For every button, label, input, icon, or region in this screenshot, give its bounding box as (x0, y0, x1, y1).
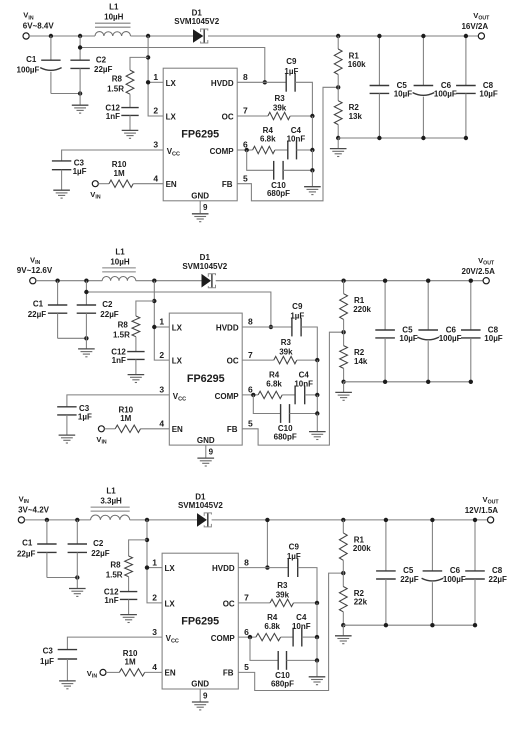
svg-text:C9: C9 (286, 57, 297, 66)
capacitor C8 (circuit 1) (465, 36, 467, 86)
node R2 bottom junction (circuit 2) (341, 380, 345, 384)
svg-text:R3: R3 (281, 338, 292, 347)
wire COMP pin 6 to R4 (circuit 3) (238, 636, 256, 638)
node VIN-C2 junction (circuit 2) (84, 279, 88, 283)
node C8 bottom junction (circuit 1) (464, 136, 468, 140)
resistor R2 (circuit 3) (342, 573, 344, 586)
wire L1 to D1 anode (circuit 3) (130, 519, 197, 521)
svg-text:HVDD: HVDD (211, 79, 234, 88)
wire COMP pin 6 to R4 (circuit 2) (242, 394, 258, 396)
capacitor C8 (circuit 3) (474, 520, 476, 571)
svg-text:D1: D1 (192, 9, 203, 18)
svg-text:C4: C4 (296, 613, 307, 622)
node C5 top junction (circuit 1) (377, 34, 381, 38)
wire C1 bottom to C2 (circuit 2) (58, 337, 87, 339)
svg-text:OC: OC (227, 357, 239, 366)
wire COMP to C10 (circuit 3) (250, 637, 278, 660)
svg-text:4: 4 (159, 419, 164, 429)
svg-text:10µF: 10µF (479, 89, 498, 98)
wire comp bus (circuit 3) (316, 603, 318, 637)
ground of comp bus (circuit 1) (304, 186, 321, 188)
wire R8 to C12 (circuit 1) (129, 94, 131, 107)
svg-text:9: 9 (203, 203, 208, 212)
capacitor C5 (circuit 1) (378, 36, 380, 86)
svg-text:FB: FB (222, 180, 233, 189)
svg-text:200k: 200k (353, 544, 371, 553)
capacitor C12 (circuit 2) (127, 351, 144, 353)
svg-text:1.5R: 1.5R (106, 570, 123, 579)
node C10 comp bus junction (circuit 2) (315, 411, 319, 415)
svg-text:1.5R: 1.5R (113, 330, 130, 339)
svg-text:LX: LX (166, 79, 177, 88)
svg-text:GND: GND (191, 192, 209, 201)
svg-text:1M: 1M (125, 658, 136, 667)
wire COMP pin 6 to R4 (circuit 1) (237, 149, 252, 151)
ground below IC pin 9 (circuit 1) (192, 213, 209, 215)
svg-text:FB: FB (227, 425, 238, 434)
svg-text:VCC: VCC (167, 147, 180, 158)
svg-text:8: 8 (248, 317, 253, 327)
resistor R4 (circuit 2) (258, 391, 282, 398)
ground below IC pin 9 (circuit 2) (197, 457, 214, 459)
wire C9 to comp bus (circuit 1) (295, 82, 312, 116)
svg-text:10µF: 10µF (394, 89, 413, 98)
node C8 top junction (circuit 2) (469, 279, 473, 283)
inductor L1 (circuit 3) (91, 515, 130, 520)
wire LX to pin 1 (circuit 2) (154, 326, 169, 328)
capacitor C1 (circuit 1) (50, 36, 52, 60)
node R8 tap on LX (circuit 2) (152, 299, 156, 303)
node C5 bottom junction (circuit 3) (384, 623, 388, 627)
capacitor C2 (circuit 3) (76, 520, 78, 544)
node VOUT-R1 junction (circuit 2) (341, 279, 345, 283)
wire HVDD pin 8 to C9 (circuit 3) (238, 567, 288, 569)
resistor R4 (circuit 3) (256, 633, 281, 640)
svg-text:C9: C9 (292, 302, 303, 311)
node VIN-C1 junction (circuit 3) (45, 518, 49, 522)
node C4 comp bus junction (circuit 2) (315, 393, 319, 397)
capacitor C10 (circuit 2) (280, 404, 282, 423)
wire OC pin 7 to R3 (circuit 1) (237, 115, 268, 117)
resistor R2 (circuit 2) (343, 332, 345, 345)
capacitor C6 (circuit 1) (422, 36, 424, 86)
node C8 top junction (circuit 1) (464, 34, 468, 38)
svg-text:SVM1045V2: SVM1045V2 (178, 501, 223, 510)
svg-text:7: 7 (248, 350, 253, 360)
diode D1 (circuit 2) (202, 274, 212, 288)
wire C1 bottom to C2 (circuit 3) (47, 577, 77, 579)
node C10 comp bus junction (circuit 1) (310, 168, 314, 172)
ground below R2 (circuit 2) (343, 382, 345, 393)
capacitor C1 (circuit 2) (57, 281, 59, 305)
ground of comp bus (circuit 3) (309, 676, 326, 678)
svg-text:1: 1 (159, 317, 164, 327)
capacitor C3 (circuit 3) (58, 649, 77, 651)
wire output ground rail (circuit 1) (338, 137, 466, 139)
svg-text:22µF: 22µF (17, 549, 36, 558)
op-amp IC U1 FP6295 (circuit 3) (162, 553, 238, 689)
wire R4 to C4 (circuit 2) (282, 394, 295, 396)
resistor R8 (circuit 3) (125, 556, 133, 577)
svg-text:680pF: 680pF (271, 679, 294, 688)
diode D1 (circuit 3) (197, 513, 207, 527)
svg-text:1: 1 (152, 557, 157, 567)
wire C4 to comp bus (circuit 1) (297, 149, 313, 151)
svg-text:220k: 220k (353, 305, 371, 314)
wire VIN to R10 (circuit 2) (104, 428, 115, 430)
capacitor C12 (circuit 3) (120, 591, 137, 593)
svg-text:COMP: COMP (211, 634, 236, 643)
capacitor C4 (circuit 3) (292, 628, 294, 647)
resistor R3 (circuit 2) (274, 356, 297, 363)
wire R3 to comp bus (circuit 1) (290, 115, 312, 117)
node feedback divider junction (circuit 1) (336, 85, 340, 89)
node C8 bottom junction (circuit 3) (473, 623, 477, 627)
node C5 bottom junction (circuit 1) (377, 136, 381, 140)
svg-text:680pF: 680pF (267, 189, 290, 198)
svg-text:12V/1.5A: 12V/1.5A (465, 506, 499, 515)
capacitor C5 (circuit 3) (385, 520, 387, 571)
svg-text:R10: R10 (123, 649, 138, 658)
node COMP junction (circuit 3) (248, 635, 252, 639)
node HVDD junction (circuit 3) (265, 565, 269, 569)
svg-text:R3: R3 (274, 94, 285, 103)
input terminal VIN for EN (circuit 2) (98, 426, 104, 432)
svg-text:1µF: 1µF (40, 657, 54, 666)
node feedback divider junction (circuit 2) (341, 330, 345, 334)
ground of comp bus (circuit 2) (309, 431, 326, 433)
svg-text:6.8k: 6.8k (266, 380, 282, 389)
capacitor C6 (circuit 3) (431, 520, 433, 571)
capacitor C8 (circuit 2) (470, 281, 472, 330)
svg-text:7: 7 (244, 593, 249, 603)
node LX junction on rail (circuit 3) (145, 518, 149, 522)
svg-text:OC: OC (222, 113, 234, 122)
inductor L1 (circuit 1) (95, 32, 131, 36)
wire VIN rail to L1 (circuit 2) (36, 280, 102, 282)
svg-text:22µF: 22µF (28, 310, 47, 319)
svg-text:22µF: 22µF (94, 65, 113, 74)
wire C10 to comp bus (circuit 1) (283, 169, 312, 171)
svg-text:22µF: 22µF (400, 575, 419, 584)
ground below C2 (circuit 3) (69, 588, 86, 590)
wire R3 to comp bus (circuit 3) (294, 602, 318, 604)
resistor R3 (circuit 1) (268, 112, 290, 119)
capacitor C4 (circuit 2) (294, 386, 296, 405)
resistor R1 (circuit 2) (343, 281, 345, 294)
node R8 tap on LX (circuit 3) (145, 538, 149, 542)
svg-text:1µF: 1µF (290, 312, 304, 321)
svg-text:2: 2 (152, 593, 157, 603)
wire L1 to D1 anode (circuit 2) (136, 280, 202, 282)
node LX junction on rail (circuit 1) (146, 34, 150, 38)
wire output ground rail (circuit 2) (344, 381, 471, 383)
capacitor C2 (circuit 1) (79, 36, 81, 60)
svg-text:1µF: 1µF (284, 67, 298, 76)
svg-text:LX: LX (166, 113, 177, 122)
wire LX to pin 1 (circuit 3) (147, 567, 162, 569)
svg-text:VOUT: VOUT (478, 256, 495, 267)
svg-text:8: 8 (243, 72, 248, 82)
input terminal VIN for EN (circuit 1) (92, 181, 98, 187)
svg-text:SVM1045V2: SVM1045V2 (182, 262, 227, 271)
wire comp bus to ground (circuit 2) (316, 414, 318, 432)
wire FB pin 5 to divider (circuit 2) (242, 332, 343, 445)
capacitor C3 (circuit 2) (57, 406, 76, 408)
input terminal VIN (circuit 3) (18, 517, 24, 523)
capacitor C6 (circuit 2) (427, 281, 429, 330)
svg-text:L1: L1 (109, 3, 119, 12)
svg-text:2: 2 (153, 106, 158, 116)
svg-text:EN: EN (166, 180, 177, 189)
svg-text:1nF: 1nF (112, 356, 126, 365)
node feedback divider junction (circuit 3) (341, 571, 345, 575)
svg-text:C2: C2 (93, 539, 104, 548)
svg-text:FP6295: FP6295 (181, 129, 219, 141)
svg-text:C1: C1 (26, 55, 37, 64)
svg-text:20V/2.5A: 20V/2.5A (462, 267, 496, 276)
svg-text:C9: C9 (289, 543, 300, 552)
wire R10 to EN pin 4 (circuit 1) (133, 183, 163, 185)
output terminal VOUT (circuit 2) (483, 278, 489, 284)
svg-text:5: 5 (248, 419, 253, 429)
wire R4 to C4 (circuit 3) (281, 636, 294, 638)
svg-text:C2: C2 (96, 55, 107, 64)
capacitor C1 (circuit 3) (46, 520, 48, 544)
wire comp bus (circuit 2) (316, 360, 318, 395)
svg-text:39k: 39k (276, 590, 290, 599)
svg-text:COMP: COMP (215, 392, 240, 401)
svg-text:D1: D1 (195, 492, 206, 501)
capacitor C9 (circuit 2) (291, 318, 293, 337)
wire D1 cathode to VOUT rail (circuit 1) (208, 35, 478, 37)
wire comp bus to ground (circuit 1) (311, 170, 313, 186)
pin 9 GND stem (circuit 3) (199, 689, 201, 702)
node C5 bottom junction (circuit 2) (383, 380, 387, 384)
resistor R1 (circuit 1) (337, 36, 339, 49)
node HVDD junction (circuit 1) (263, 80, 267, 84)
wire D1 cathode to VOUT rail (circuit 2) (216, 280, 483, 282)
ground below C2 (circuit 1) (72, 104, 89, 106)
svg-text:1M: 1M (114, 169, 125, 178)
svg-text:7: 7 (243, 106, 248, 116)
ground below C3 (circuit 1) (53, 189, 70, 191)
wire C9 to comp bus (circuit 3) (298, 568, 317, 603)
wire VCC pin 3 to C3 (circuit 1) (62, 150, 164, 161)
node C10 comp bus junction (circuit 3) (315, 658, 319, 662)
svg-text:R8: R8 (110, 561, 121, 570)
node pin1 junction (circuit 2) (152, 325, 156, 329)
svg-text:EN: EN (172, 425, 183, 434)
node C1-C2 ground junction (circuit 1) (78, 91, 82, 95)
wire LX to R8 (circuit 1) (130, 57, 148, 70)
node feed at C2 (circuit 2) (84, 290, 88, 294)
svg-text:R8: R8 (118, 321, 129, 330)
wire L1 to D1 anode (circuit 1) (131, 35, 194, 37)
node C5 top junction (circuit 2) (383, 279, 387, 283)
inductor L1 (circuit 2) (102, 277, 136, 281)
node C6 top junction (circuit 1) (421, 34, 425, 38)
svg-text:R4: R4 (269, 371, 280, 380)
svg-text:VIN: VIN (90, 190, 101, 201)
svg-text:39k: 39k (273, 104, 287, 113)
wire R8 to C12 (circuit 3) (128, 577, 130, 592)
svg-text:R10: R10 (112, 160, 127, 169)
svg-text:OC: OC (223, 599, 235, 608)
svg-text:100µF: 100µF (434, 89, 457, 98)
svg-text:10µF: 10µF (399, 334, 418, 343)
capacitor C2 (circuit 2) (85, 281, 87, 305)
wire C10 to comp bus (circuit 3) (287, 659, 318, 661)
capacitor C10 (circuit 3) (277, 651, 279, 670)
svg-text:100µF: 100µF (17, 65, 40, 74)
svg-text:VCC: VCC (173, 392, 186, 403)
wire comp bus (circuit 1) (311, 116, 313, 150)
wire LX to R8 (circuit 2) (136, 301, 154, 316)
svg-text:10µF: 10µF (484, 334, 503, 343)
svg-text:9V~12.6V: 9V~12.6V (17, 266, 53, 275)
pin 9 GND stem (circuit 1) (199, 201, 201, 214)
wire VIN rail to L1 (circuit 3) (25, 519, 91, 521)
wire R10 to EN pin 4 (circuit 2) (141, 428, 170, 430)
svg-text:R2: R2 (354, 589, 365, 598)
wire VIN to R10 (circuit 3) (106, 671, 119, 673)
ground below C12 (circuit 2) (128, 374, 145, 376)
svg-text:13k: 13k (349, 112, 363, 121)
ground below C3 (circuit 3) (59, 680, 76, 682)
wire R10 to EN pin 4 (circuit 3) (145, 671, 162, 673)
ground below C2 (circuit 2) (78, 348, 95, 350)
output terminal VOUT (circuit 3) (488, 517, 494, 523)
svg-text:FP6295: FP6295 (181, 616, 219, 628)
wire D1 cathode to VOUT rail (circuit 3) (212, 519, 488, 521)
svg-text:160k: 160k (348, 60, 366, 69)
svg-text:1µF: 1µF (78, 412, 92, 421)
wire comp bus lower (circuit 2) (316, 395, 318, 414)
capacitor C9 (circuit 1) (285, 73, 287, 92)
svg-text:16V/2A: 16V/2A (461, 22, 488, 31)
capacitor C5 (circuit 2) (384, 281, 386, 330)
svg-text:9: 9 (203, 691, 208, 700)
svg-text:EN: EN (165, 669, 176, 678)
op-amp IC U1 FP6295 (circuit 2) (169, 313, 242, 445)
svg-text:L1: L1 (115, 247, 125, 256)
wire LX node to pins 1-2 (circuit 1) (148, 36, 163, 116)
op-amp IC U1 FP6295 (circuit 1) (163, 68, 237, 201)
ground below C3 (circuit 2) (59, 434, 76, 436)
node R3 comp bus junction (circuit 2) (315, 358, 319, 362)
capacitor C3 (circuit 1) (52, 160, 71, 162)
svg-text:LX: LX (172, 324, 183, 333)
svg-text:3: 3 (152, 627, 157, 637)
resistor R2 (circuit 1) (337, 87, 339, 100)
wire FB pin 5 to divider (circuit 1) (237, 87, 338, 201)
svg-text:10µH: 10µH (104, 13, 124, 22)
node VIN-C2 junction (circuit 3) (75, 518, 79, 522)
input terminal VIN for EN (circuit 3) (100, 669, 106, 675)
wire COMP to C10 (circuit 1) (247, 150, 274, 170)
node R8 tap on LX (circuit 1) (146, 55, 150, 59)
wire VIN to R10 (circuit 1) (98, 183, 109, 185)
node feed on rail (circuit 3) (265, 518, 269, 522)
node pin1 junction (circuit 3) (145, 565, 149, 569)
wire HVDD pin 8 to C9 (circuit 1) (237, 81, 286, 83)
wire OC pin 7 to R3 (circuit 2) (242, 359, 274, 361)
svg-text:HVDD: HVDD (212, 564, 235, 573)
svg-text:680pF: 680pF (274, 432, 297, 441)
node COMP junction (circuit 2) (251, 393, 255, 397)
svg-text:22µF: 22µF (489, 575, 508, 584)
node C6 bottom junction (circuit 1) (421, 136, 425, 140)
svg-text:3.3µH: 3.3µH (100, 497, 122, 506)
node C8 top junction (circuit 3) (473, 518, 477, 522)
svg-text:LX: LX (172, 357, 183, 366)
output terminal VOUT (circuit 1) (478, 33, 484, 39)
svg-text:6.8k: 6.8k (264, 622, 280, 631)
resistor R8 (circuit 2) (132, 316, 140, 337)
svg-text:2: 2 (159, 350, 164, 360)
svg-text:3: 3 (159, 385, 164, 395)
svg-text:C1: C1 (33, 300, 44, 309)
ground below R2 (circuit 3) (342, 625, 344, 636)
capacitor C9 (circuit 3) (287, 558, 289, 577)
node VIN-C1 junction (circuit 2) (55, 279, 59, 283)
svg-text:HVDD: HVDD (216, 324, 239, 333)
svg-text:C4: C4 (299, 371, 310, 380)
svg-text:L1: L1 (106, 487, 116, 496)
wire VIN rail to L1 (circuit 1) (29, 35, 95, 37)
svg-text:C3: C3 (74, 158, 85, 167)
resistor R10 (circuit 2) (115, 425, 140, 432)
node C1-C2 ground junction (circuit 3) (75, 575, 79, 579)
wire VCC pin 3 to C3 (circuit 2) (67, 395, 169, 407)
wire comp bus to ground (circuit 3) (316, 660, 318, 676)
svg-text:LX: LX (165, 564, 176, 573)
node VOUT-R1 junction (circuit 1) (336, 34, 340, 38)
node C6 bottom junction (circuit 3) (430, 623, 434, 627)
node R3 comp bus junction (circuit 1) (310, 114, 314, 118)
ground below R2 (circuit 1) (337, 138, 339, 149)
node feed at C2 (circuit 1) (78, 45, 82, 49)
wire C4 to comp bus (circuit 2) (305, 394, 318, 396)
svg-text:1.5R: 1.5R (107, 84, 124, 93)
node VOUT-R1 junction (circuit 3) (341, 518, 345, 522)
svg-text:4: 4 (153, 173, 158, 183)
svg-text:SVM1045V2: SVM1045V2 (174, 17, 219, 26)
svg-text:22µF: 22µF (100, 310, 119, 319)
svg-text:C4: C4 (291, 126, 302, 135)
node C6 top junction (circuit 3) (430, 518, 434, 522)
node R2 bottom junction (circuit 3) (341, 623, 345, 627)
node pin1 junction (circuit 1) (146, 80, 150, 84)
wire LX node to pins 1-2 (circuit 2) (154, 281, 169, 360)
svg-text:10nF: 10nF (292, 622, 311, 631)
node C6 top junction (circuit 2) (426, 279, 430, 283)
capacitor C12 (circuit 1) (121, 107, 138, 109)
wire R8 to C12 (circuit 2) (135, 337, 137, 352)
resistor R10 (circuit 3) (119, 669, 144, 676)
svg-text:R2: R2 (349, 103, 360, 112)
svg-text:VIN: VIN (30, 255, 41, 266)
svg-text:VIN: VIN (19, 495, 30, 506)
wire LX to R8 (circuit 3) (129, 540, 147, 556)
svg-text:C1: C1 (22, 539, 33, 548)
diode D1 (circuit 1) (193, 29, 203, 43)
capacitor C4 (circuit 1) (287, 141, 289, 160)
svg-text:R2: R2 (354, 348, 365, 357)
input terminal VIN (circuit 2) (30, 278, 36, 284)
ground below C12 (circuit 1) (122, 129, 139, 131)
